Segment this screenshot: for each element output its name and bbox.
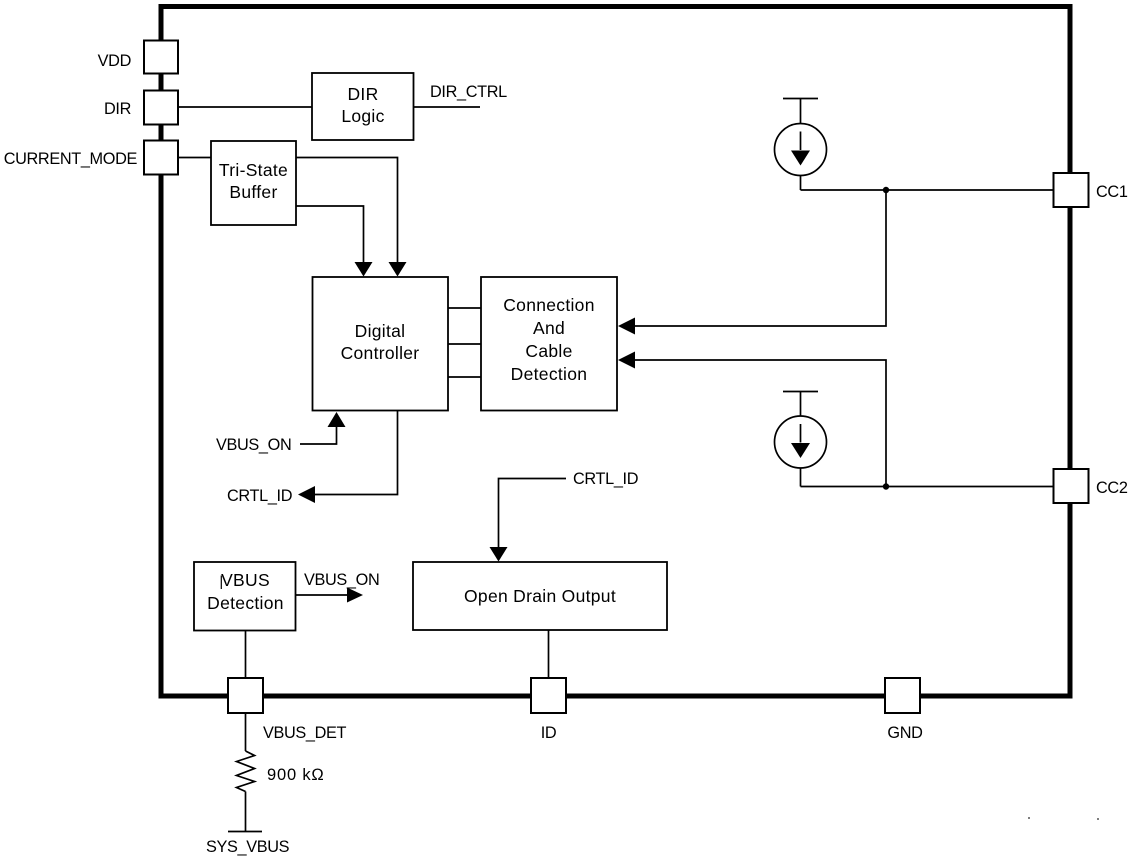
svg-text:Controller: Controller — [341, 343, 420, 363]
pin CURRENT_MODE — [4, 141, 178, 175]
wire Digital Controller to CRTL_ID — [314, 411, 398, 495]
block DIR Logic — [312, 73, 414, 140]
current source I1 — [775, 99, 827, 191]
wire bus line 3 — [448, 376, 481, 378]
pin GND — [885, 678, 923, 742]
svg-text:VBUS_DET: VBUS_DET — [263, 724, 347, 742]
wire CC2 net to Connection block — [632, 360, 886, 487]
svg-text:Connection: Connection — [503, 295, 595, 315]
svg-text:CRTL_ID: CRTL_ID — [573, 470, 638, 488]
svg-text:900 kΩ: 900 kΩ — [267, 766, 325, 784]
junction node at CC2 net — [883, 483, 889, 489]
wire bus line 2 — [448, 343, 481, 345]
svg-text:Logic: Logic — [341, 106, 384, 126]
svg-text:Tri-State: Tri-State — [219, 160, 288, 180]
svg-text:VDD: VDD — [98, 52, 131, 70]
wire DIR to DIR Logic — [178, 106, 312, 108]
wire I1 to CC1 — [801, 189, 1054, 191]
svg-text:DIR: DIR — [104, 100, 131, 118]
svg-text:GND: GND — [887, 724, 922, 742]
pin CC1 — [1054, 173, 1128, 207]
pin CC2 — [1054, 469, 1128, 503]
svg-text:CURRENT_MODE: CURRENT_MODE — [4, 150, 138, 168]
wire DIR Logic output — [414, 106, 481, 108]
block Connection And Cable Detection — [481, 277, 617, 411]
svg-text:Buffer: Buffer — [229, 182, 277, 202]
svg-text:Detection: Detection — [511, 364, 588, 384]
wire CC1 net to Connection block — [632, 190, 886, 326]
svg-text:CRTL_ID: CRTL_ID — [227, 487, 292, 505]
svg-text:VBUS: VBUS — [221, 570, 270, 590]
svg-text:CC2: CC2 — [1096, 479, 1128, 497]
wire bus line 1 Digital Controller to Connection block — [448, 307, 481, 309]
wire resistor to SYS_VBUS rail — [245, 792, 247, 832]
svg-text:Open Drain Output: Open Drain Output — [464, 586, 616, 606]
svg-text:Detection: Detection — [207, 593, 284, 613]
svg-text:SYS_VBUS: SYS_VBUS — [206, 838, 290, 856]
block Tri-State Buffer — [211, 141, 296, 225]
svg-text:Cable: Cable — [525, 341, 572, 361]
svg-text:DIR_CTRL: DIR_CTRL — [430, 83, 507, 101]
svg-text:VBUS_ON: VBUS_ON — [304, 571, 379, 589]
wire VBUS Detection to VBUS_DET pin — [245, 631, 247, 679]
block Digital Controller — [313, 277, 449, 411]
IC outline U1 — [161, 7, 1070, 697]
pin VDD — [98, 41, 178, 74]
wire VBUS Detection to VBUS_ON — [296, 594, 348, 596]
svg-text:VBUS_ON: VBUS_ON — [216, 436, 291, 454]
svg-text:Digital: Digital — [355, 321, 406, 341]
node SYS_VBUS rail — [228, 831, 262, 833]
wire I2 to CC2 — [801, 486, 1054, 488]
junction node at CC1 net — [883, 187, 889, 193]
resistor R 900 kOhm — [237, 751, 325, 792]
pin VBUS_DET — [228, 678, 347, 742]
wire VBUS_ON into Digital Controller — [300, 427, 337, 444]
speck artifacts — [1028, 817, 1030, 819]
pin DIR — [104, 91, 178, 125]
svg-text:ID: ID — [541, 724, 557, 742]
svg-text:DIR: DIR — [347, 84, 378, 104]
pin ID — [531, 678, 566, 742]
wire Tri-State Buffer lower output to Digital Controller — [296, 206, 364, 263]
block Open Drain Output — [413, 562, 667, 630]
wire VBUS_DET pin to resistor — [245, 713, 247, 751]
wire CRTL_ID to Open Drain Output — [499, 479, 567, 549]
wire Tri-State Buffer upper output to Digital Controller — [296, 158, 398, 263]
wire CURRENT_MODE to Tri-State Buffer — [178, 157, 211, 159]
current source I2 — [775, 392, 827, 487]
block VBUS Detection — [194, 562, 296, 631]
svg-text:CC1: CC1 — [1096, 183, 1128, 201]
svg-text:And: And — [533, 318, 565, 338]
wire Open Drain Output to ID pin — [548, 630, 550, 678]
